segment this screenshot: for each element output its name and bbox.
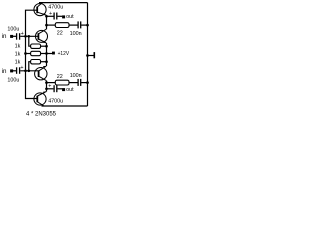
- node dot zobel2 rail: [86, 81, 89, 84]
- svg-text:100u: 100u: [7, 78, 19, 84]
- wire resistor R3 left stub: [29, 62, 31, 71]
- terminal out 2: [62, 88, 65, 91]
- node dot R2 left: [24, 52, 27, 55]
- wire Zobel 2 row: [47, 82, 56, 84]
- node dot out2: [45, 87, 48, 90]
- wire center bus segment B: [46, 43, 48, 66]
- svg-text:100u: 100u: [7, 26, 19, 32]
- wire 0V terminal: [88, 55, 94, 57]
- node dot R1 stub: [27, 35, 30, 38]
- node dot out1: [45, 15, 48, 18]
- terminal 0V bar: [94, 52, 96, 58]
- wire resistor R2 right: [41, 53, 47, 55]
- node dot zobel1 rail: [86, 24, 89, 27]
- capacitor 100n top: [78, 21, 81, 28]
- svg-text:4700u: 4700u: [48, 5, 63, 11]
- wire input 1 row: [13, 35, 16, 37]
- wire left bus with base corners: [26, 10, 38, 98]
- resistor R1 1k: [31, 44, 41, 48]
- resistor R3 1k: [31, 60, 41, 64]
- wire output 2 row: [47, 88, 54, 90]
- svg-text:1k: 1k: [15, 52, 21, 58]
- node dot R1 right: [45, 45, 48, 48]
- wire resistor R1 right: [41, 45, 47, 47]
- node dot 0V rail: [86, 54, 89, 57]
- node dot zobel2 left: [45, 81, 48, 84]
- svg-text:22: 22: [57, 74, 63, 80]
- capacitor 100u input 2: [17, 67, 20, 74]
- terminal out 1: [62, 15, 65, 18]
- svg-text:out: out: [66, 14, 74, 20]
- svg-text:+12V: +12V: [58, 51, 70, 57]
- wire Zobel 1 row: [47, 24, 56, 26]
- svg-text:22: 22: [57, 31, 63, 37]
- capacitor 4700u output 1: [54, 13, 57, 20]
- wire input 2 row: [13, 70, 16, 72]
- wire top rail: [39, 2, 88, 4]
- capacitor 100n bottom: [78, 79, 81, 86]
- capacitor 4700u output 2: [54, 85, 57, 92]
- node dot R3 stub: [27, 69, 30, 72]
- wire resistor R1 left stub: [29, 36, 31, 46]
- transistor Q4 2N3055: [34, 92, 46, 107]
- svg-text:100n: 100n: [70, 73, 82, 79]
- svg-text:+: +: [48, 84, 51, 90]
- svg-text:4700u: 4700u: [48, 98, 63, 104]
- wire right rail: [87, 3, 89, 106]
- svg-text:in: in: [2, 68, 7, 75]
- svg-text:+: +: [21, 31, 24, 37]
- wire center bus segment C: [46, 81, 48, 92]
- node dot input1 on left bus: [24, 35, 27, 38]
- svg-text:4 * 2N3055: 4 * 2N3055: [26, 111, 57, 117]
- wire resistor R3 right: [41, 61, 47, 63]
- transistor Q3 2N3055: [35, 66, 47, 81]
- node dot R3 right: [45, 60, 48, 63]
- terminal +12V: [52, 52, 55, 55]
- node dot R2 right +12V: [45, 52, 48, 55]
- wire resistor R2 left: [26, 53, 31, 55]
- resistor R2 1k: [31, 51, 41, 55]
- wire +12V: [47, 53, 53, 55]
- svg-text:out: out: [66, 87, 74, 93]
- node dot zobel1 left: [45, 24, 48, 27]
- resistor 22 ohm bottom: [55, 80, 69, 85]
- svg-text:+: +: [49, 11, 52, 17]
- capacitor 100u input 1: [17, 33, 20, 40]
- terminal in 1: [10, 35, 13, 38]
- wire bottom rail: [42, 105, 88, 107]
- resistor 22 ohm top: [55, 23, 69, 28]
- svg-text:in: in: [2, 33, 7, 40]
- transistor Q2 2N3055: [36, 29, 48, 43]
- svg-text:1k: 1k: [15, 43, 21, 49]
- node dot input2 on left bus: [24, 69, 27, 72]
- svg-text:100n: 100n: [70, 31, 82, 37]
- svg-text:+: +: [20, 65, 23, 71]
- wire output 1 row: [47, 15, 54, 17]
- terminal in 2: [10, 69, 13, 72]
- wire center bus segment A: [46, 15, 48, 29]
- transistor Q1 2N3055: [34, 3, 46, 16]
